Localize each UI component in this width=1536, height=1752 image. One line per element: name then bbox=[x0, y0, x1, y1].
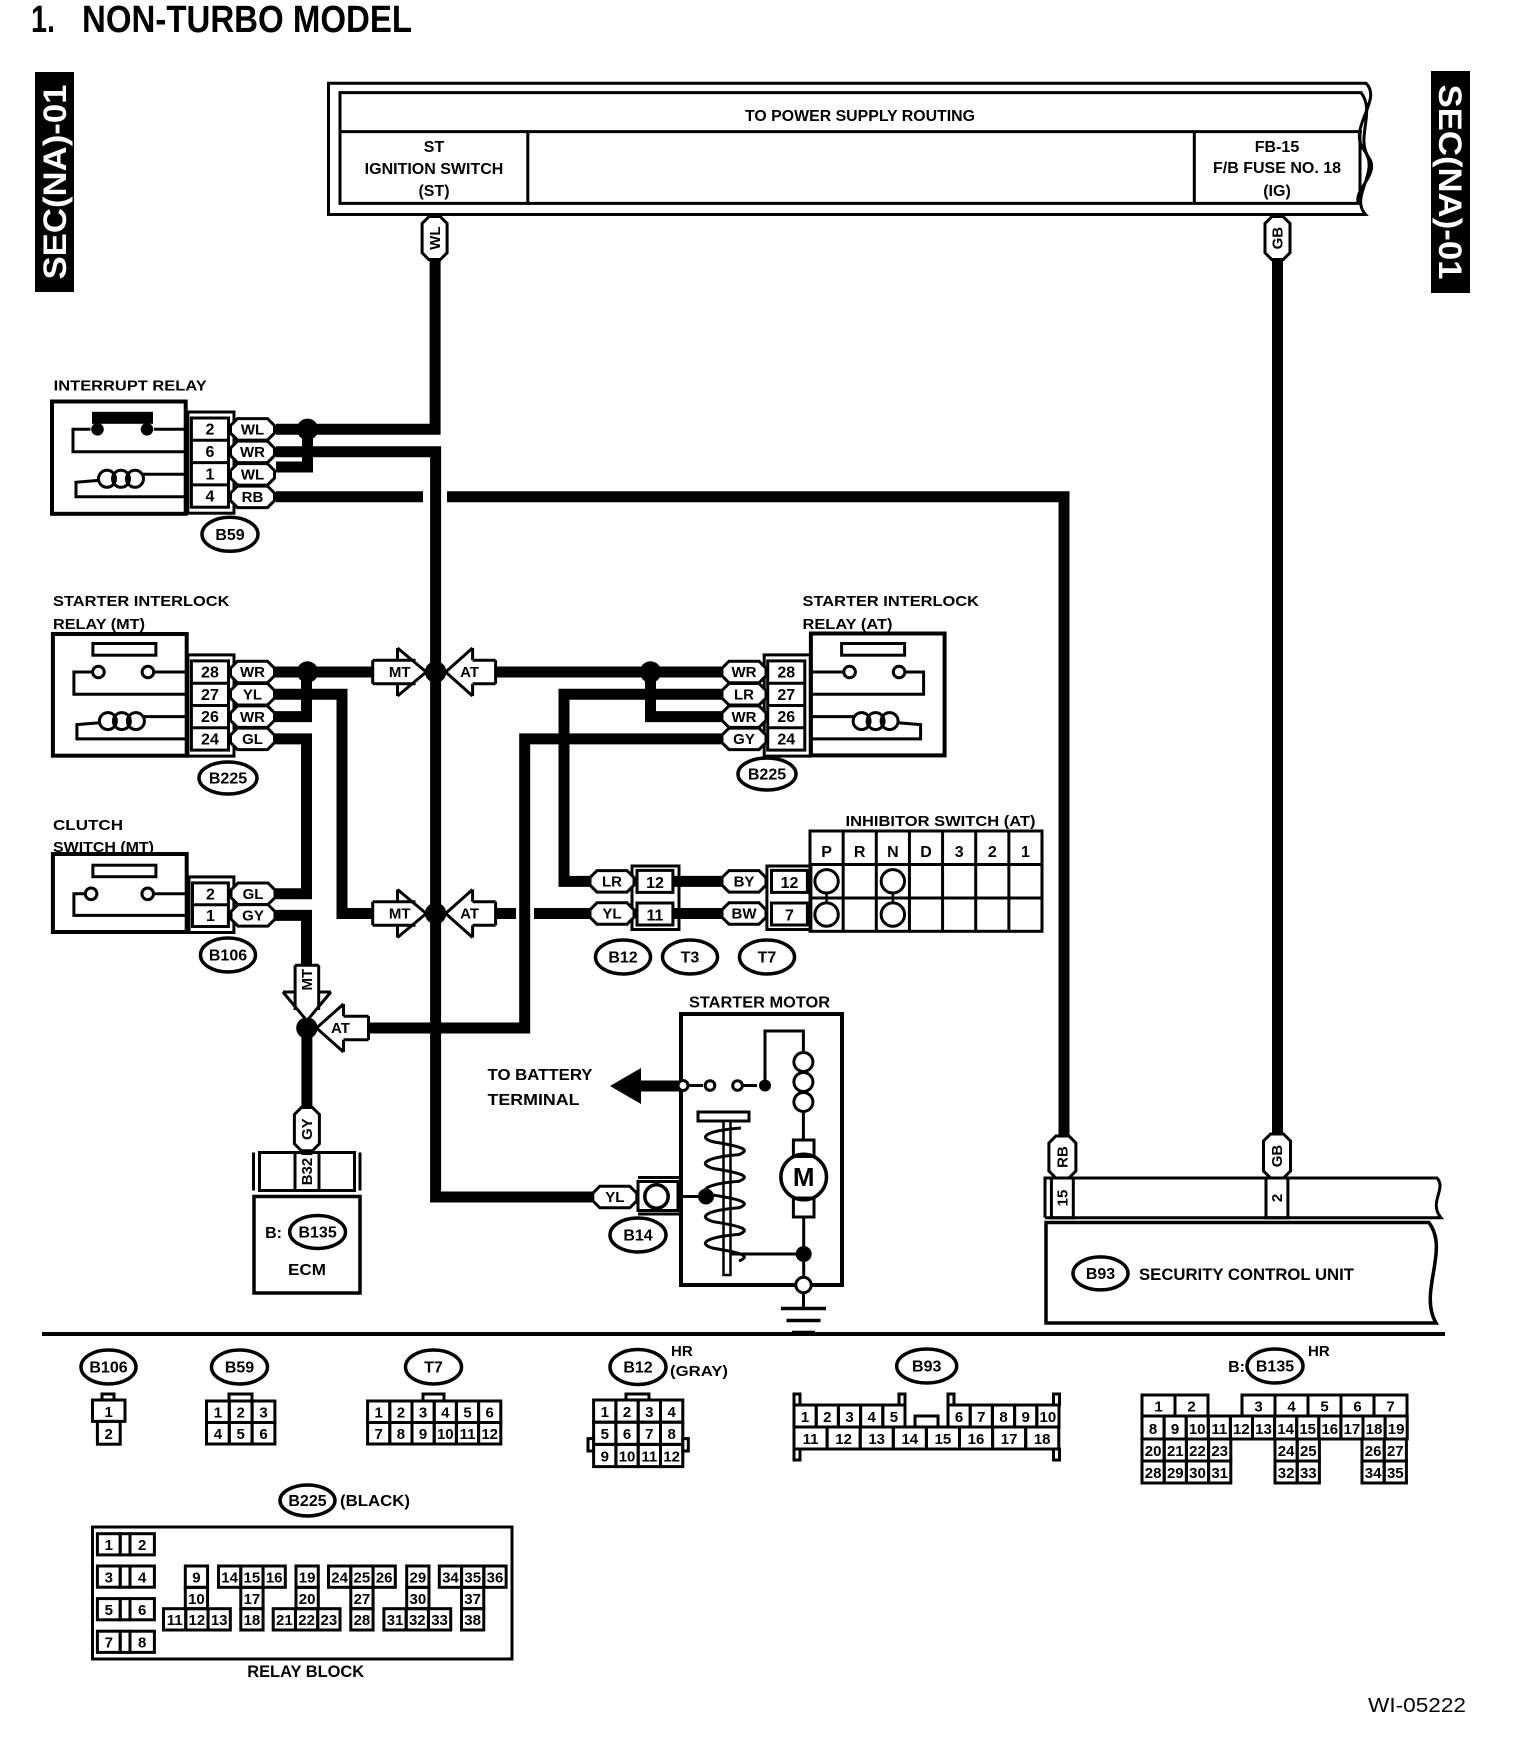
svg-text:29: 29 bbox=[409, 1569, 426, 1586]
interrupt relay connector B59 pins bbox=[188, 412, 234, 513]
svg-text:(ST): (ST) bbox=[418, 183, 449, 200]
svg-text:WR: WR bbox=[732, 709, 757, 726]
svg-text:11: 11 bbox=[460, 1426, 476, 1443]
oval B14 bbox=[610, 1218, 666, 1252]
wire junction2 to T3 pin11 YL (gaps at crossing) bbox=[494, 908, 516, 919]
svg-text:10: 10 bbox=[1040, 1409, 1057, 1426]
svg-text:8: 8 bbox=[667, 1426, 675, 1443]
svg-text:25: 25 bbox=[354, 1569, 371, 1586]
ECM connector B32 strip bbox=[252, 1153, 255, 1191]
oval T3 bbox=[663, 940, 718, 974]
svg-text:1: 1 bbox=[206, 908, 215, 925]
svg-text:13: 13 bbox=[1255, 1421, 1272, 1438]
svg-text:24: 24 bbox=[201, 731, 219, 748]
pin 15 cell bbox=[1051, 1178, 1073, 1218]
svg-text:HR: HR bbox=[671, 1343, 693, 1360]
svg-text:32: 32 bbox=[409, 1612, 426, 1629]
svg-text:SEC(NA)-01: SEC(NA)-01 bbox=[37, 85, 73, 280]
svg-text:15: 15 bbox=[1055, 1190, 1072, 1207]
oval B93 unit bbox=[1073, 1257, 1128, 1290]
svg-text:27: 27 bbox=[201, 687, 219, 704]
pill LR T3 pin12 bbox=[590, 871, 634, 893]
pill YL T3 pin11 bbox=[590, 903, 634, 924]
svg-text:16: 16 bbox=[1321, 1421, 1338, 1438]
ignition switch cell bbox=[526, 132, 529, 204]
svg-text:GL: GL bbox=[243, 886, 264, 903]
svg-text:YL: YL bbox=[605, 1189, 624, 1206]
svg-text:1: 1 bbox=[375, 1405, 383, 1422]
svg-text:1: 1 bbox=[105, 1404, 113, 1421]
svg-text:32: 32 bbox=[1278, 1465, 1295, 1482]
svg-text:INTERRUPT RELAY: INTERRUPT RELAY bbox=[54, 378, 207, 395]
oval B93 bottom bbox=[897, 1349, 957, 1383]
svg-text:30: 30 bbox=[1189, 1465, 1206, 1482]
pill WL pin1 bbox=[231, 464, 275, 486]
wire WR pin6 down to MT/AT junction 1 bbox=[276, 452, 436, 666]
svg-text:LR: LR bbox=[734, 687, 754, 704]
svg-text:6: 6 bbox=[138, 1602, 146, 1619]
svg-text:12: 12 bbox=[1233, 1421, 1250, 1438]
svg-text:GY: GY bbox=[299, 1118, 316, 1140]
svg-text:15: 15 bbox=[244, 1569, 261, 1586]
svg-text:2: 2 bbox=[397, 1405, 405, 1422]
svg-text:11: 11 bbox=[1211, 1421, 1227, 1438]
pill WL pin2 bbox=[231, 419, 275, 441]
MT arrow junction2 bbox=[373, 890, 427, 938]
svg-text:37: 37 bbox=[464, 1591, 481, 1608]
oval B12 bbox=[596, 940, 651, 974]
wire junction1 vertical down to junction2 and starter motor YL bbox=[436, 672, 593, 1197]
svg-text:B12: B12 bbox=[623, 1360, 652, 1377]
junction dot 1 bbox=[425, 661, 446, 682]
svg-text:16: 16 bbox=[266, 1569, 283, 1586]
svg-text:WR: WR bbox=[240, 709, 265, 726]
solenoid coil bbox=[765, 1031, 803, 1086]
svg-text:3: 3 bbox=[105, 1569, 113, 1586]
svg-text:35: 35 bbox=[1387, 1465, 1404, 1482]
oval B106 bottom bbox=[81, 1350, 136, 1384]
MT arrow junction1 bbox=[373, 648, 427, 696]
T7 connector box bbox=[767, 866, 811, 930]
svg-text:WR: WR bbox=[240, 444, 265, 461]
svg-text:28: 28 bbox=[777, 665, 795, 682]
svg-text:(GRAY): (GRAY) bbox=[670, 1363, 728, 1380]
svg-text:B59: B59 bbox=[215, 527, 244, 544]
svg-text:5: 5 bbox=[463, 1405, 471, 1422]
svg-text:8: 8 bbox=[999, 1409, 1007, 1426]
svg-text:AT: AT bbox=[460, 906, 479, 923]
svg-text:(IG): (IG) bbox=[1263, 183, 1291, 200]
svg-text:9: 9 bbox=[192, 1569, 200, 1586]
svg-text:GL: GL bbox=[242, 731, 263, 748]
svg-text:D: D bbox=[920, 844, 932, 861]
motor M with brushes bbox=[793, 1140, 814, 1157]
svg-text:10: 10 bbox=[619, 1448, 636, 1465]
wire pin1 WL link up to junction bbox=[276, 429, 308, 467]
svg-text:TO BATTERY: TO BATTERY bbox=[488, 1067, 593, 1084]
svg-text:RELAY (MT): RELAY (MT) bbox=[53, 616, 145, 633]
svg-text:5: 5 bbox=[105, 1602, 113, 1619]
svg-text:WL: WL bbox=[241, 422, 264, 439]
svg-text:28: 28 bbox=[354, 1612, 371, 1629]
svg-text:TERMINAL: TERMINAL bbox=[488, 1092, 580, 1109]
svg-text:27: 27 bbox=[354, 1591, 371, 1608]
svg-text:RB: RB bbox=[242, 489, 264, 506]
svg-text:B225: B225 bbox=[209, 771, 247, 788]
svg-text:15: 15 bbox=[935, 1431, 952, 1448]
svg-text:2: 2 bbox=[1187, 1399, 1195, 1416]
fuse cell bbox=[1193, 132, 1196, 204]
wire AT pin24 GY down to junction3 AT arrow bbox=[368, 739, 722, 1028]
svg-text:25: 25 bbox=[1300, 1443, 1317, 1460]
starter interlock relay MT box bbox=[53, 634, 187, 756]
svg-text:17: 17 bbox=[1001, 1431, 1018, 1448]
svg-text:1: 1 bbox=[1154, 1399, 1162, 1416]
svg-text:INHIBITOR SWITCH (AT): INHIBITOR SWITCH (AT) bbox=[846, 813, 1036, 830]
starter motor box bbox=[681, 1014, 842, 1285]
pill WR pin26 bbox=[231, 706, 275, 728]
svg-text:SEC(NA)-01: SEC(NA)-01 bbox=[1432, 85, 1468, 280]
svg-text:ST: ST bbox=[424, 139, 445, 156]
oval B59 bottom bbox=[212, 1350, 268, 1384]
svg-text:11: 11 bbox=[641, 1448, 657, 1465]
junction dot 3 bbox=[296, 1017, 317, 1038]
AT relay connector pins bbox=[764, 655, 810, 756]
svg-text:28: 28 bbox=[201, 665, 219, 682]
svg-text:B106: B106 bbox=[209, 948, 247, 965]
svg-text:30: 30 bbox=[409, 1591, 426, 1608]
B93 connector bbox=[794, 1394, 800, 1405]
wire MT pin24 GL down to clutch pin2 GL bbox=[275, 739, 307, 894]
svg-text:12: 12 bbox=[481, 1426, 498, 1443]
svg-text:2: 2 bbox=[205, 422, 214, 439]
svg-text:34: 34 bbox=[1365, 1465, 1382, 1482]
svg-text:B225: B225 bbox=[748, 767, 786, 784]
svg-text:31: 31 bbox=[1211, 1465, 1228, 1482]
svg-text:12: 12 bbox=[835, 1431, 852, 1448]
svg-text:SECURITY CONTROL UNIT: SECURITY CONTROL UNIT bbox=[1139, 1265, 1355, 1284]
svg-text:T3: T3 bbox=[681, 950, 700, 967]
GB pill from fuse bbox=[1265, 217, 1290, 260]
svg-text:4: 4 bbox=[1287, 1399, 1296, 1416]
svg-text:27: 27 bbox=[777, 687, 795, 704]
wire MT pin26 WR link up to junction dot bbox=[275, 672, 307, 717]
svg-text:33: 33 bbox=[431, 1612, 448, 1629]
svg-text:26: 26 bbox=[201, 709, 219, 726]
svg-text:28: 28 bbox=[1145, 1465, 1162, 1482]
svg-text:WI-05222: WI-05222 bbox=[1368, 1695, 1466, 1717]
svg-text:R: R bbox=[854, 844, 866, 861]
svg-text:4: 4 bbox=[138, 1569, 147, 1586]
pill GB bottom bbox=[1264, 1134, 1291, 1178]
ground terminal circle bbox=[796, 1277, 811, 1292]
svg-text:2: 2 bbox=[105, 1426, 113, 1443]
T7 connector bbox=[423, 1394, 444, 1401]
svg-text:26: 26 bbox=[777, 709, 795, 726]
svg-text:12: 12 bbox=[646, 875, 664, 892]
AT arrow junction1 bbox=[446, 648, 496, 696]
svg-text:1: 1 bbox=[205, 466, 214, 483]
svg-text:24: 24 bbox=[1278, 1443, 1295, 1460]
svg-text:2: 2 bbox=[1269, 1194, 1286, 1202]
svg-text:HR: HR bbox=[1308, 1343, 1330, 1360]
svg-text:15: 15 bbox=[1299, 1421, 1316, 1438]
wire T3 pin12 to T7 BY bbox=[673, 876, 722, 887]
svg-text:B32: B32 bbox=[299, 1158, 316, 1186]
svg-text:29: 29 bbox=[1167, 1465, 1184, 1482]
pill WR pin28 bbox=[231, 661, 275, 683]
svg-text:B93: B93 bbox=[912, 1359, 941, 1376]
oval B59 bbox=[202, 517, 258, 551]
svg-text:1: 1 bbox=[105, 1537, 113, 1554]
ring terminal B14 bbox=[638, 1176, 682, 1179]
svg-text:MT: MT bbox=[299, 969, 316, 991]
svg-text:BY: BY bbox=[734, 874, 755, 891]
left banner SEC(NA)-01 bbox=[35, 72, 74, 292]
svg-text:STARTER INTERLOCK: STARTER INTERLOCK bbox=[803, 593, 980, 610]
svg-text:6: 6 bbox=[205, 444, 214, 461]
pill BY T7 pin12 bbox=[722, 871, 766, 893]
svg-text:33: 33 bbox=[1300, 1465, 1317, 1482]
svg-text:2: 2 bbox=[988, 844, 997, 861]
svg-text:MT: MT bbox=[389, 906, 411, 923]
junction dot 2 bbox=[425, 903, 446, 924]
svg-text:17: 17 bbox=[244, 1591, 261, 1608]
svg-text:12: 12 bbox=[781, 875, 799, 892]
svg-text:F/B FUSE NO. 18: F/B FUSE NO. 18 bbox=[1213, 160, 1341, 177]
junction dot AT pin28/26 bbox=[640, 661, 661, 682]
svg-text:4: 4 bbox=[667, 1404, 676, 1421]
junction dot MT pin28 wire bbox=[297, 661, 318, 682]
svg-text:FB-15: FB-15 bbox=[1255, 139, 1300, 156]
svg-text:24: 24 bbox=[777, 731, 795, 748]
svg-text:23: 23 bbox=[321, 1612, 338, 1629]
svg-text:1: 1 bbox=[1021, 844, 1030, 861]
svg-text:BW: BW bbox=[732, 906, 758, 923]
svg-text:5: 5 bbox=[601, 1426, 609, 1443]
svg-text:T7: T7 bbox=[758, 950, 777, 967]
svg-text:B135: B135 bbox=[298, 1225, 336, 1242]
oval B12 bottom + HR (GRAY) bbox=[610, 1350, 666, 1385]
pill GY pin1 bbox=[231, 905, 275, 927]
svg-text:B59: B59 bbox=[225, 1360, 254, 1377]
svg-text:1: 1 bbox=[214, 1405, 222, 1422]
interrupt relay box bbox=[52, 402, 186, 514]
svg-text:7: 7 bbox=[375, 1426, 383, 1443]
svg-text:B14: B14 bbox=[623, 1228, 652, 1245]
MT arrow junction3 (down) bbox=[283, 965, 331, 1021]
svg-text:3: 3 bbox=[645, 1404, 653, 1421]
svg-text:7: 7 bbox=[1386, 1399, 1394, 1416]
svg-text:31: 31 bbox=[387, 1612, 404, 1629]
B12 connector bbox=[626, 1394, 649, 1400]
svg-text:6: 6 bbox=[259, 1426, 267, 1443]
oval T7 bbox=[740, 940, 795, 974]
svg-text:14: 14 bbox=[901, 1431, 918, 1448]
svg-text:WR: WR bbox=[732, 664, 757, 681]
svg-text:MT: MT bbox=[389, 664, 411, 681]
oval T7 bottom bbox=[406, 1350, 462, 1384]
svg-text:YL: YL bbox=[602, 906, 621, 923]
svg-text:8: 8 bbox=[138, 1635, 146, 1652]
svg-text:B:: B: bbox=[1228, 1359, 1245, 1376]
svg-text:7: 7 bbox=[785, 908, 794, 925]
svg-text:9: 9 bbox=[601, 1448, 609, 1465]
svg-text:5: 5 bbox=[1320, 1399, 1328, 1416]
svg-text:35: 35 bbox=[464, 1569, 481, 1586]
svg-text:8: 8 bbox=[397, 1426, 405, 1443]
svg-text:11: 11 bbox=[803, 1431, 819, 1448]
wire clutch pin1 GY down to MT arrow junction3 bbox=[275, 915, 307, 969]
svg-text:6: 6 bbox=[623, 1426, 631, 1443]
pill GY pin24 AT bbox=[722, 728, 766, 750]
wire WL from ignition switch down to interrupt relay pin 2 bbox=[276, 258, 435, 429]
svg-text:23: 23 bbox=[1211, 1443, 1228, 1460]
separator line bbox=[42, 1332, 1445, 1336]
oval B225 left bbox=[199, 762, 257, 794]
svg-text:RB: RB bbox=[1055, 1146, 1072, 1168]
svg-text:P: P bbox=[821, 844, 832, 861]
svg-text:18: 18 bbox=[1034, 1431, 1051, 1448]
wire MT pin27 YL down to junction2 bbox=[275, 694, 373, 913]
power supply routing box bbox=[329, 83, 1371, 214]
svg-text:GY: GY bbox=[242, 908, 264, 925]
svg-text:9: 9 bbox=[1171, 1421, 1179, 1438]
svg-text:1: 1 bbox=[601, 1404, 609, 1421]
svg-text:WR: WR bbox=[240, 664, 265, 681]
svg-text:GY: GY bbox=[733, 731, 755, 748]
svg-text:5: 5 bbox=[890, 1409, 898, 1426]
svg-text:7: 7 bbox=[977, 1409, 985, 1426]
GB wire down to security unit bbox=[1272, 258, 1283, 1136]
plunger spring bbox=[705, 1128, 744, 1261]
svg-text:9: 9 bbox=[1022, 1409, 1030, 1426]
svg-text:4: 4 bbox=[868, 1409, 877, 1426]
starter interlock relay AT box bbox=[811, 634, 945, 756]
T3 connector box bbox=[632, 866, 679, 930]
svg-text:(BLACK): (BLACK) bbox=[340, 1493, 410, 1510]
svg-text:14: 14 bbox=[1277, 1421, 1294, 1438]
svg-text:16: 16 bbox=[968, 1431, 985, 1448]
svg-text:TO POWER SUPPLY ROUTING: TO POWER SUPPLY ROUTING bbox=[745, 108, 975, 125]
svg-text:CLUTCH: CLUTCH bbox=[53, 817, 123, 834]
svg-text:9: 9 bbox=[419, 1426, 427, 1443]
oval B225 bottom + (BLACK) bbox=[280, 1485, 335, 1516]
svg-text:B135: B135 bbox=[1256, 1359, 1294, 1376]
clutch connector pins bbox=[189, 877, 234, 933]
svg-text:7: 7 bbox=[645, 1426, 653, 1443]
svg-text:8: 8 bbox=[1149, 1421, 1157, 1438]
svg-text:21: 21 bbox=[276, 1612, 293, 1629]
svg-text:21: 21 bbox=[1167, 1443, 1184, 1460]
svg-text:RELAY BLOCK: RELAY BLOCK bbox=[247, 1662, 365, 1681]
svg-text:ECM: ECM bbox=[288, 1262, 326, 1279]
AT arrow junction2 bbox=[446, 890, 496, 938]
svg-text:STARTER INTERLOCK: STARTER INTERLOCK bbox=[53, 593, 230, 610]
svg-text:M: M bbox=[793, 1162, 815, 1192]
svg-text:20: 20 bbox=[299, 1591, 316, 1608]
svg-text:NON-TURBO MODEL: NON-TURBO MODEL bbox=[82, 0, 412, 41]
inhibitor switch grid bbox=[810, 831, 1042, 931]
ECM box bbox=[254, 1197, 360, 1294]
svg-text:RELAY (AT): RELAY (AT) bbox=[803, 616, 893, 633]
svg-text:YL: YL bbox=[243, 687, 262, 704]
svg-text:18: 18 bbox=[244, 1612, 261, 1629]
svg-text:7: 7 bbox=[105, 1635, 113, 1652]
svg-text:2: 2 bbox=[623, 1404, 631, 1421]
svg-text:24: 24 bbox=[331, 1569, 348, 1586]
pill RB pin4 bbox=[231, 486, 275, 508]
svg-text:LR: LR bbox=[602, 874, 622, 891]
svg-text:6: 6 bbox=[955, 1409, 963, 1426]
wire AT pin26 WR link bbox=[651, 672, 723, 717]
svg-text:11: 11 bbox=[167, 1612, 183, 1629]
plunger T-bar bbox=[698, 1112, 749, 1121]
svg-text:3: 3 bbox=[419, 1405, 427, 1422]
svg-text:IGNITION SWITCH: IGNITION SWITCH bbox=[365, 161, 504, 178]
svg-text:38: 38 bbox=[464, 1612, 481, 1629]
motor junction dot bbox=[796, 1246, 812, 1262]
pill YL pin27 bbox=[231, 684, 275, 706]
svg-text:STARTER MOTOR: STARTER MOTOR bbox=[689, 995, 830, 1012]
svg-text:14: 14 bbox=[221, 1569, 238, 1586]
ground symbol bbox=[802, 1293, 805, 1307]
pill LR pin27 AT bbox=[722, 684, 766, 706]
svg-text:AT: AT bbox=[331, 1020, 350, 1037]
clutch switch box bbox=[53, 854, 187, 932]
svg-text:22: 22 bbox=[298, 1612, 315, 1629]
svg-text:19: 19 bbox=[299, 1569, 316, 1586]
pill BW T7 pin7 bbox=[722, 903, 766, 924]
svg-text:3: 3 bbox=[259, 1405, 267, 1422]
svg-text:3: 3 bbox=[1254, 1399, 1262, 1416]
svg-text:3: 3 bbox=[845, 1409, 853, 1426]
svg-text:10: 10 bbox=[1189, 1421, 1206, 1438]
svg-text:B12: B12 bbox=[608, 950, 637, 967]
svg-text:13: 13 bbox=[868, 1431, 885, 1448]
svg-text:1: 1 bbox=[801, 1409, 809, 1426]
svg-text:2: 2 bbox=[206, 886, 215, 903]
svg-text:N: N bbox=[887, 844, 899, 861]
YL pill to starter motor bbox=[593, 1186, 637, 1208]
oval B225 right bbox=[738, 758, 796, 790]
pill WR pin6 bbox=[231, 441, 275, 463]
svg-text:26: 26 bbox=[1365, 1443, 1382, 1460]
svg-text:10: 10 bbox=[188, 1591, 205, 1608]
wire junction3 down to GY pill / ECM bbox=[301, 1028, 312, 1110]
pill GL pin2 bbox=[231, 883, 275, 905]
svg-text:12: 12 bbox=[663, 1448, 680, 1465]
svg-text:10: 10 bbox=[437, 1426, 454, 1443]
right banner SEC(NA)-01 bbox=[1431, 71, 1470, 293]
starter solenoid contacts bbox=[678, 1081, 688, 1091]
oval B135 in ECM bbox=[290, 1216, 346, 1249]
svg-text:18: 18 bbox=[1366, 1421, 1383, 1438]
svg-text:B106: B106 bbox=[89, 1360, 127, 1377]
svg-text:19: 19 bbox=[1388, 1421, 1405, 1438]
svg-text:GB: GB bbox=[1270, 227, 1287, 250]
inhibitor contacts P column bbox=[815, 870, 838, 893]
svg-text:13: 13 bbox=[211, 1612, 228, 1629]
svg-text:WL: WL bbox=[427, 226, 444, 249]
svg-text:36: 36 bbox=[487, 1569, 504, 1586]
svg-text:22: 22 bbox=[1189, 1443, 1206, 1460]
svg-text:20: 20 bbox=[1145, 1443, 1162, 1460]
svg-text:1.: 1. bbox=[31, 0, 55, 41]
svg-text:4: 4 bbox=[441, 1405, 450, 1422]
pill WR pin26 AT bbox=[722, 706, 766, 728]
wire AT pin27 LR down to T3 pin12 LR bbox=[564, 694, 722, 881]
